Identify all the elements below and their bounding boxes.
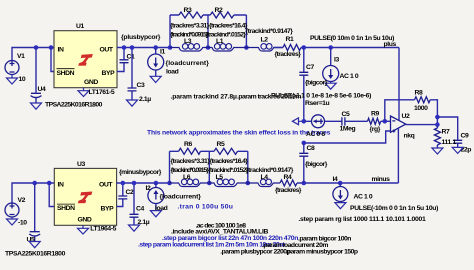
resistor R7 xyxy=(434,125,456,148)
regulator U1 xyxy=(54,23,117,88)
svg-text:R9: R9 xyxy=(371,111,380,118)
svg-text:U4: U4 xyxy=(38,86,47,93)
ground U1 GND pin xyxy=(78,88,89,97)
svg-text:BYP: BYP xyxy=(101,206,115,213)
svg-text:load: load xyxy=(166,69,179,76)
node U5 tap xyxy=(32,181,37,186)
svg-text:PULSE(0 10m 0 1n 1n 5u 10u): PULSE(0 10m 0 1n 1n 5u 10u) xyxy=(310,35,394,42)
wire U2 output xyxy=(406,124,438,126)
node rail5 bottom xyxy=(207,181,212,186)
svg-text:{trackind*.0152}: {trackind*.0152} xyxy=(206,31,247,38)
wire V1 to U1 IN xyxy=(12,48,54,61)
wire SHDN2 branch xyxy=(49,183,54,207)
node SHDN tap xyxy=(49,45,54,50)
svg-text:R4: R4 xyxy=(284,174,293,181)
node mid junction xyxy=(302,119,307,124)
node inverting input xyxy=(383,119,388,124)
ground under C9 xyxy=(452,147,463,153)
node rail1 top xyxy=(168,45,173,50)
svg-text:R1: R1 xyxy=(286,36,295,43)
inductor L1 xyxy=(206,31,247,51)
inductor L5 xyxy=(208,167,249,187)
wire rail3 xyxy=(245,15,247,48)
resistor R6 xyxy=(170,141,211,165)
node SHDN2 tap xyxy=(47,181,52,186)
svg-text:R8: R8 xyxy=(415,89,424,96)
svg-text:SHDN: SHDN xyxy=(57,70,75,77)
ground under C3 xyxy=(127,100,138,106)
svg-text:2.1µ: 2.1µ xyxy=(139,96,151,103)
inductor L4 xyxy=(246,167,294,187)
svg-text:SHDN: SHDN xyxy=(57,205,75,212)
wire rail5 xyxy=(208,151,210,183)
svg-text:R7: R7 xyxy=(442,129,451,136)
wire plus rail down to U2 V+ xyxy=(398,48,400,122)
capacitor C5 xyxy=(340,111,368,132)
svg-text:{trackres*16.4}: {trackres*16.4} xyxy=(209,23,248,30)
svg-text:C8: C8 xyxy=(307,145,316,152)
resistor R9 xyxy=(368,111,391,133)
svg-text:V2: V2 xyxy=(18,197,26,204)
svg-text:L4: L4 xyxy=(261,174,269,181)
svg-text:1Meg: 1Meg xyxy=(340,125,356,132)
wire U2 V- stub to minus rail xyxy=(397,129,399,183)
svg-text:111.1: 111.1 xyxy=(442,139,457,146)
svg-text:L6: L6 xyxy=(183,174,191,181)
svg-text:R3: R3 xyxy=(184,7,193,14)
svg-text:{rg}: {rg} xyxy=(370,126,381,133)
resistor R4 xyxy=(275,174,398,194)
voltage source V2 xyxy=(5,197,27,227)
ground under I1 xyxy=(150,76,161,82)
svg-text:{trackind*0.9147}: {trackind*0.9147} xyxy=(246,167,294,174)
svg-text:{trackres*16.4}: {trackres*16.4} xyxy=(210,158,249,165)
resistor R5 xyxy=(209,141,248,165)
wire rail2 xyxy=(207,15,209,48)
node rail2 top xyxy=(206,45,211,50)
wire V2 to U3 IN xyxy=(12,183,54,203)
svg-text:GND: GND xyxy=(78,217,92,224)
svg-text:AC 1 0: AC 1 0 xyxy=(340,73,359,80)
wire feedback rail xyxy=(385,100,438,125)
svg-text:PULSE(-1 1 0 1e-8 1e-8 5e-6 10: PULSE(-1 1 0 1e-8 1e-8 5e-6 10e-6) xyxy=(271,92,371,99)
ground under I3 xyxy=(325,82,336,90)
svg-text:{trackres*3.31}: {trackres*3.31} xyxy=(171,158,211,165)
svg-text:10: 10 xyxy=(19,76,26,83)
current source I3 xyxy=(323,48,359,82)
node mid lower junction xyxy=(302,141,307,146)
ground under R7 xyxy=(432,148,443,154)
wire U4 branch xyxy=(35,48,37,93)
current source I4 xyxy=(333,176,373,202)
node C7 tap xyxy=(302,45,307,50)
svg-text:nkq: nkq xyxy=(404,132,415,139)
capacitor U5 (tantalum) xyxy=(27,232,41,244)
svg-text:Rser=1u: Rser=1u xyxy=(305,100,329,107)
svg-text:minus: minus xyxy=(372,176,391,183)
current source I1 xyxy=(148,45,210,76)
resistor R2 xyxy=(208,7,248,30)
capacitor C9 xyxy=(453,132,471,153)
ground under V2 xyxy=(7,217,18,225)
svg-text:I2: I2 xyxy=(146,185,151,192)
ground under V1 xyxy=(7,75,18,85)
svg-text:TPSA225K016R1800: TPSA225K016R1800 xyxy=(45,101,103,108)
svg-text:.param trackind 27.8µ: .param trackind 27.8µ xyxy=(171,94,237,101)
ground under C4 xyxy=(129,225,140,231)
svg-text:L3: L3 xyxy=(184,38,192,45)
svg-text:C5: C5 xyxy=(342,111,351,118)
node output/C9 tap xyxy=(435,115,440,120)
svg-text:C7: C7 xyxy=(306,64,315,71)
ground under U5 xyxy=(29,242,40,248)
resistor R3 xyxy=(170,7,210,30)
svg-text:{bigcor}: {bigcor} xyxy=(305,161,328,168)
svg-text:{trackres}: {trackres} xyxy=(275,51,302,58)
node output xyxy=(435,122,440,127)
svg-text:I1: I1 xyxy=(160,49,165,56)
node rail4 bottom xyxy=(167,181,172,186)
wire C9 branch xyxy=(437,117,457,147)
op-amp U2 xyxy=(391,113,415,139)
svg-text:{trackres}: {trackres} xyxy=(275,187,302,194)
svg-text:C1: C1 xyxy=(127,53,136,60)
capacitor C7 xyxy=(299,48,327,122)
wire U3 OUT rail xyxy=(117,182,170,184)
svg-text:L2: L2 xyxy=(261,36,269,43)
capacitor C2 xyxy=(117,181,134,207)
svg-text:.step param rg list 1000 111.1: .step param rg list 1000 111.1 10.101 1.… xyxy=(298,216,426,223)
wire +input to mid node xyxy=(304,131,391,143)
regulator U3 xyxy=(54,161,116,225)
svg-text:{loadcurrent}: {loadcurrent} xyxy=(160,194,202,201)
LT logo U3 xyxy=(78,192,93,204)
svg-text:{trackind*.0152}: {trackind*.0152} xyxy=(208,167,249,174)
svg-text:V1: V1 xyxy=(17,53,25,60)
svg-text:IN: IN xyxy=(58,46,64,53)
svg-text:I3: I3 xyxy=(334,56,339,63)
resistor R1 xyxy=(274,36,399,58)
svg-text:OUT: OUT xyxy=(100,46,114,53)
svg-text:This network approximates the: This network approximates the skin effec… xyxy=(147,129,331,136)
svg-text:AC 1 0: AC 1 0 xyxy=(354,194,373,201)
svg-text:U2: U2 xyxy=(402,113,411,120)
svg-text:{trackind*0.9147}: {trackind*0.9147} xyxy=(246,28,294,35)
ground under I4 xyxy=(335,202,346,209)
wire U1 OUT rail xyxy=(117,47,170,49)
ground under I2 xyxy=(150,211,161,217)
svg-text:LT1964-5: LT1964-5 xyxy=(90,226,116,233)
svg-text:I4: I4 xyxy=(333,176,338,183)
svg-text:plus: plus xyxy=(384,41,397,48)
capacitor C1 xyxy=(117,45,135,71)
inductor L6 xyxy=(170,167,210,187)
voltage source V1 xyxy=(5,53,26,83)
svg-text:TPSA225K016R1800: TPSA225K016R1800 xyxy=(5,251,66,258)
LT logo U1 xyxy=(78,54,93,66)
wire SHDN branch xyxy=(51,48,54,72)
svg-text:.tran 0 100u 50u: .tran 0 100u 50u xyxy=(178,204,233,211)
wire rail6 xyxy=(247,151,249,183)
svg-text:BYP: BYP xyxy=(102,70,116,77)
svg-text:R2: R2 xyxy=(215,7,224,14)
svg-text:{trackind*0.0915}: {trackind*0.0915} xyxy=(171,167,210,174)
svg-text:R5: R5 xyxy=(217,141,226,148)
svg-text:.param minusbypcor 150p: .param minusbypcor 150p xyxy=(286,249,358,256)
svg-text:R6: R6 xyxy=(184,141,193,148)
node rail3 top xyxy=(244,45,249,50)
svg-text:-10: -10 xyxy=(18,220,27,227)
svg-text:{trackind*0.0915}: {trackind*0.0915} xyxy=(170,31,209,38)
svg-text:OUT: OUT xyxy=(99,181,113,188)
ground under U4 xyxy=(31,103,42,109)
svg-text:C3: C3 xyxy=(137,82,146,89)
svg-text:{plusbypcor}: {plusbypcor} xyxy=(121,34,161,41)
svg-text:L5: L5 xyxy=(216,174,224,181)
node C8 minus tap xyxy=(302,181,307,186)
node I3 tap xyxy=(328,45,333,50)
svg-text:U1: U1 xyxy=(76,23,85,30)
svg-text:IN: IN xyxy=(58,181,64,188)
svg-text:.param plusbypcor 2200p: .param plusbypcor 2200p xyxy=(220,249,290,256)
svg-text:GND: GND xyxy=(84,79,98,86)
current source I2 xyxy=(146,181,202,212)
node I4 tap xyxy=(338,181,343,186)
svg-text:1000: 1000 xyxy=(414,105,428,112)
svg-text:PULSE(-10m 0 0 1n 1n 5u 10u): PULSE(-10m 0 0 1n 1n 5u 10u) xyxy=(350,205,438,212)
capacitor C8 xyxy=(299,143,327,183)
ground flag sideways at V3 input xyxy=(292,118,303,125)
svg-text:C2: C2 xyxy=(126,189,135,196)
svg-text:C4: C4 xyxy=(136,205,145,212)
svg-text:U3: U3 xyxy=(77,161,86,168)
wire rail4 xyxy=(169,151,171,183)
svg-text:{trackres*3.31}: {trackres*3.31} xyxy=(170,23,210,30)
capacitor C3 xyxy=(128,45,152,103)
svg-text:C9: C9 xyxy=(461,132,470,139)
svg-text:L1: L1 xyxy=(216,38,224,45)
wire rail1 xyxy=(169,15,171,48)
svg-text:AC 0 6: AC 0 6 xyxy=(306,131,325,138)
node rail6 bottom xyxy=(246,181,251,186)
inductor L2 xyxy=(246,28,294,51)
svg-text:LT1761-5: LT1761-5 xyxy=(89,89,115,96)
ground U3 GND pin xyxy=(78,225,89,234)
voltage source V3 xyxy=(304,115,342,138)
resistor R8 xyxy=(414,89,430,112)
wire U5 branch xyxy=(34,183,36,231)
svg-text:{bigcor}: {bigcor} xyxy=(305,79,328,86)
capacitor U4 (tantalum) xyxy=(31,86,47,103)
svg-text:{loadcurrent}: {loadcurrent} xyxy=(166,60,210,67)
node U4 tap xyxy=(34,45,39,50)
capacitor C4 xyxy=(130,181,150,226)
svg-text:{minusbypcor}: {minusbypcor} xyxy=(119,169,162,176)
inductor L3 xyxy=(170,31,209,51)
